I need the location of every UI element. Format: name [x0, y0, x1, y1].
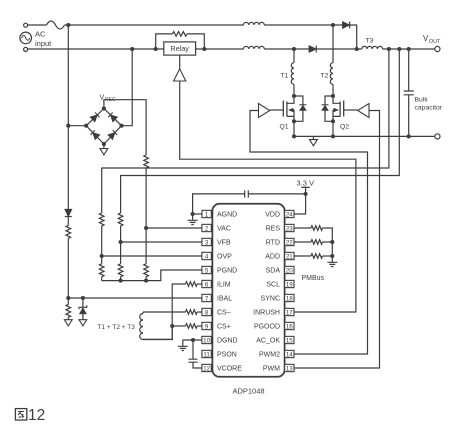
- svg-text:Q1: Q1: [280, 123, 289, 130]
- node relay bypass right: [202, 47, 206, 51]
- svg-text:19: 19: [286, 281, 293, 288]
- wire R11 to pin8: [197, 311, 202, 313]
- bulk capacitor: [404, 49, 414, 136]
- ground arrow bridge return: [100, 144, 108, 155]
- ground DGND: [178, 340, 188, 351]
- svg-text:SCL: SCL: [266, 282, 280, 289]
- wire T1 to Q1 drain: [293, 84, 295, 96]
- wire R6 to PGND rail: [120, 277, 122, 281]
- wire VREC sense: [104, 100, 146, 155]
- node VAC tap: [144, 226, 148, 230]
- svg-text:Bulk: Bulk: [415, 97, 429, 104]
- wire R3 to OVP tap: [101, 226, 103, 264]
- wire T3 to VOUT terminal: [383, 48, 435, 50]
- resistor R10: [66, 298, 71, 317]
- svg-text:PGND: PGND: [217, 268, 237, 275]
- label AC input: [35, 30, 52, 49]
- fuse F1: [47, 21, 65, 29]
- svg-text:SYNC: SYNC: [261, 296, 280, 303]
- resistor R11 CS-: [186, 310, 198, 315]
- svg-text:PWM: PWM: [263, 366, 280, 373]
- svg-text:input: input: [35, 39, 52, 48]
- node bridge bottom: [102, 142, 106, 146]
- svg-text:6: 6: [205, 281, 209, 288]
- node bulk cap top: [407, 47, 411, 51]
- pin 17 INRUSH: [253, 308, 294, 316]
- ground pullups: [327, 256, 337, 267]
- bridge rectifier BR1: [86, 109, 121, 145]
- body diode Q1: [294, 96, 306, 121]
- svg-text:RES: RES: [266, 226, 281, 233]
- svg-text:Q2: Q2: [340, 123, 349, 130]
- wire T1 tap: [293, 49, 295, 63]
- svg-text:1: 1: [205, 211, 209, 218]
- svg-text:SDA: SDA: [266, 268, 281, 275]
- wire PGND rail: [102, 270, 202, 281]
- pin 9 CS+: [202, 322, 231, 330]
- resistor R6: [118, 264, 123, 277]
- resistor R7: [144, 155, 149, 168]
- svg-text:VCORE: VCORE: [217, 366, 242, 373]
- node AC line1 bridge junction: [66, 124, 70, 128]
- node OVP tap: [100, 254, 104, 258]
- node bridge left: [84, 124, 88, 128]
- node Q1 source: [292, 119, 296, 123]
- pin 2 VAC: [202, 224, 231, 232]
- pin 19 SCL: [266, 280, 294, 288]
- node relay bypass left: [154, 47, 158, 51]
- transformer T2 primary: [330, 63, 333, 85]
- pin 11 PSON: [202, 350, 237, 358]
- resistor R9 ILIM: [186, 282, 198, 287]
- pin 3 VFB: [202, 238, 231, 246]
- node CS+ junction: [170, 324, 174, 328]
- svg-text:18: 18: [286, 295, 293, 302]
- node Q2 drain: [331, 94, 335, 98]
- wire AC line1 vertical: [67, 25, 69, 209]
- wire AC line 2: [28, 48, 164, 50]
- pin 22 RTD: [266, 238, 294, 246]
- wire D2 to T3: [316, 48, 362, 50]
- resistor R15 ADD: [294, 254, 332, 259]
- node VFB tap: [119, 240, 123, 244]
- svg-text:3: 3: [205, 239, 209, 246]
- wire D3 to output join: [350, 25, 357, 49]
- svg-text:PSON: PSON: [217, 352, 237, 359]
- wire D1 to R1: [67, 217, 69, 226]
- resistor R3: [99, 213, 104, 226]
- svg-text:14: 14: [286, 351, 293, 358]
- transistor Q1: [270, 96, 294, 121]
- svg-text:ADP1048: ADP1048: [232, 387, 264, 396]
- pin 18 SYNC: [261, 294, 294, 302]
- wire relay to inductor L2: [196, 48, 244, 50]
- svg-text:20: 20: [286, 267, 293, 274]
- pin 21 ADD: [265, 252, 294, 260]
- wire IBAL rail: [68, 297, 202, 299]
- resistor R8: [144, 264, 149, 277]
- wire L1 to D3: [264, 24, 342, 26]
- wire R9 to pin6: [197, 283, 202, 285]
- svg-text:2: 2: [205, 225, 209, 232]
- wire R4 to PGND rail: [101, 277, 103, 281]
- pin 6 ILIM: [202, 280, 231, 288]
- pin 16 PGOOD: [254, 322, 294, 330]
- buffer U3 Q1 driver: [259, 104, 270, 118]
- wire L2 to D2: [264, 48, 309, 50]
- op-amp U1 ADP1048 body: [212, 204, 284, 377]
- wire R12 to pin9: [197, 325, 202, 327]
- label bulk capacitor: [415, 97, 443, 112]
- relay K1: [164, 42, 196, 55]
- wire CS+ node to R12: [172, 325, 185, 327]
- wire bridge left to AC line: [68, 125, 86, 127]
- svg-text:OVP: OVP: [217, 254, 232, 261]
- svg-text:T2: T2: [321, 73, 329, 80]
- buffer U4 Q2 driver: [358, 104, 369, 118]
- svg-text:22: 22: [286, 239, 293, 246]
- pin 13 PWM: [263, 364, 294, 372]
- diode D2: [309, 46, 316, 53]
- node bridge branch: [130, 47, 134, 51]
- node Q2 source: [331, 119, 335, 123]
- svg-text:AC: AC: [35, 30, 46, 39]
- svg-text:Relay: Relay: [171, 44, 190, 53]
- wire pullup common: [331, 242, 333, 256]
- svg-text:8: 8: [205, 309, 209, 316]
- svg-text:12: 12: [28, 407, 45, 424]
- svg-text:DGND: DGND: [217, 338, 238, 345]
- node T1 tap on line 2: [292, 47, 296, 51]
- pin 10 DGND: [202, 336, 238, 344]
- label VOUT: [423, 34, 441, 45]
- svg-text:11: 11: [203, 351, 210, 358]
- svg-text:17: 17: [286, 309, 293, 316]
- pin 24 VDD: [265, 210, 294, 218]
- transformer T1 primary: [291, 63, 294, 85]
- resistor R13 RES: [294, 226, 332, 242]
- inductor L1: [244, 22, 265, 25]
- supply 3.3V bar: [301, 186, 309, 188]
- svg-text:13: 13: [286, 365, 293, 372]
- svg-text:9: 9: [205, 323, 209, 330]
- node PGND rail C: [144, 279, 148, 283]
- inductor T3: [362, 46, 383, 49]
- node Q1 drain: [292, 94, 296, 98]
- pin 4 OVP: [202, 252, 232, 260]
- svg-text:T1: T1: [281, 73, 289, 80]
- svg-text:VFB: VFB: [217, 240, 231, 247]
- wire PWM2 to Q1 driver: [250, 111, 368, 355]
- wire sense B: [121, 49, 400, 213]
- inductor T1+T2+T3 sense winding: [140, 312, 172, 340]
- relay bypass resistor R2: [156, 32, 205, 49]
- node 3.3V cap tap: [304, 192, 308, 196]
- svg-text:4: 4: [205, 253, 209, 260]
- caption figure 12: [15, 407, 45, 424]
- svg-text:PGOOD: PGOOD: [254, 324, 280, 331]
- pin 8 CS&#8211;: [202, 308, 231, 316]
- wire ILIM to CS node: [143, 284, 186, 339]
- wire AC line 1 left: [28, 24, 47, 26]
- capacitor C2 VCORE: [189, 340, 202, 368]
- svg-text:15: 15: [286, 337, 293, 344]
- node IBAL chain R: [66, 296, 70, 300]
- diode D1: [65, 209, 72, 216]
- node sense B tap: [397, 47, 401, 51]
- wire DGND: [183, 339, 202, 341]
- wire Q2 source to rail: [332, 121, 334, 136]
- svg-text:VAC: VAC: [217, 226, 231, 233]
- node ADD join: [330, 254, 334, 258]
- svg-text:ILIM: ILIM: [217, 282, 231, 289]
- node output join: [355, 47, 359, 51]
- resistor R12 CS+: [186, 324, 198, 329]
- svg-text:21: 21: [286, 253, 293, 260]
- node sense A tap: [387, 47, 391, 51]
- terminal VOUT: [435, 46, 440, 51]
- zener diode DZ1: [79, 298, 87, 320]
- ground arrow source rail: [310, 136, 318, 145]
- wire PWM to Q2 driver: [294, 111, 380, 369]
- wire bridge right to AC line 2: [122, 49, 133, 126]
- wire sense A: [102, 49, 389, 213]
- node IBAL chain Z: [81, 296, 85, 300]
- capacitor C1: [193, 190, 306, 214]
- node RTD join: [330, 240, 334, 244]
- body diode Q2: [322, 96, 334, 121]
- resistor R4: [99, 264, 104, 277]
- svg-text:24: 24: [286, 211, 293, 218]
- svg-text:PWM2: PWM2: [259, 352, 280, 359]
- node PGND rail B: [119, 279, 123, 283]
- svg-text:VDD: VDD: [265, 212, 280, 219]
- ground arrow R10: [64, 317, 72, 326]
- pin 5 PGND: [202, 266, 237, 274]
- node AGND: [191, 212, 195, 216]
- svg-text:ADD: ADD: [265, 254, 280, 261]
- wire 3.3V to VDD pin24: [294, 187, 306, 214]
- pin 15 AC_OK: [256, 336, 294, 344]
- svg-text:7: 7: [205, 295, 209, 302]
- svg-text:IBAL: IBAL: [217, 296, 232, 303]
- svg-text:CS–: CS–: [217, 310, 231, 317]
- diode D3: [343, 22, 350, 29]
- svg-text:T3: T3: [366, 38, 374, 45]
- pin 12 VCORE: [202, 364, 242, 372]
- pin 7 IBAL: [202, 294, 232, 302]
- svg-text:AGND: AGND: [217, 212, 237, 219]
- wire AC line 1 to inductor L1: [65, 24, 244, 26]
- resistor R14 RTD: [294, 240, 332, 245]
- transistor Q2: [333, 96, 358, 121]
- pin 23 RES: [266, 224, 294, 232]
- wire R8 to PGND rail: [145, 277, 147, 281]
- svg-text:OUT: OUT: [429, 39, 441, 45]
- node bridge top: [102, 106, 106, 110]
- node fuse junction: [66, 23, 70, 27]
- AC source: [20, 23, 32, 51]
- svg-text:16: 16: [286, 323, 293, 330]
- svg-text:capacitor: capacitor: [415, 105, 443, 112]
- wire VFB tap to pin3: [121, 241, 202, 243]
- node Q2 source rail: [331, 134, 335, 138]
- ground arrow DZ1: [79, 320, 87, 326]
- svg-text:CS+: CS+: [217, 324, 231, 331]
- wire INRUSH to relay driver: [180, 81, 356, 312]
- svg-text:12: 12: [203, 365, 210, 372]
- wire Q1 source to rail: [293, 121, 295, 136]
- ground AGND: [188, 214, 198, 225]
- wire T2 tap: [332, 25, 334, 63]
- svg-text:10: 10: [203, 337, 210, 344]
- svg-text:23: 23: [286, 225, 293, 232]
- svg-text:INRUSH: INRUSH: [253, 310, 280, 317]
- node VCORE cap tap: [191, 338, 195, 342]
- wire pin1 AGND: [193, 213, 202, 215]
- pin 20 SDA: [266, 266, 294, 274]
- node T2 tap on line 1: [331, 23, 335, 27]
- wire OVP tap to pin4: [102, 255, 202, 257]
- label VREC: [100, 94, 116, 103]
- wire R5 to VFB tap: [120, 226, 122, 264]
- pin 1 AGND: [202, 210, 237, 218]
- wire T2 to Q2 drain: [332, 84, 334, 96]
- node Q1 source rail: [292, 134, 296, 138]
- svg-text:AC_OK: AC_OK: [256, 338, 280, 345]
- svg-text:3.3 V: 3.3 V: [297, 179, 315, 188]
- wire R1 to IBAL rail: [67, 238, 69, 298]
- wire relay to driver: [179, 55, 181, 69]
- resistor R5: [118, 213, 123, 226]
- node bulk cap bottom: [407, 134, 411, 138]
- svg-text:PMBus: PMBus: [302, 275, 325, 282]
- wire R7 to VAC tap: [145, 168, 147, 264]
- buffer U2 relay driver: [174, 69, 186, 81]
- resistor R1: [66, 225, 71, 238]
- wire return rail: [294, 135, 435, 137]
- svg-text:RTD: RTD: [266, 240, 280, 247]
- terminal return: [435, 134, 440, 139]
- inductor L2: [244, 46, 265, 49]
- wire VAC tap to pin2: [146, 227, 202, 229]
- pin 14 PWM2: [259, 350, 294, 358]
- node bridge right: [119, 124, 123, 128]
- wire CS- from winding: [143, 311, 186, 313]
- svg-text:T1 + T2 + T3: T1 + T2 + T3: [98, 324, 136, 331]
- svg-text:5: 5: [205, 267, 209, 274]
